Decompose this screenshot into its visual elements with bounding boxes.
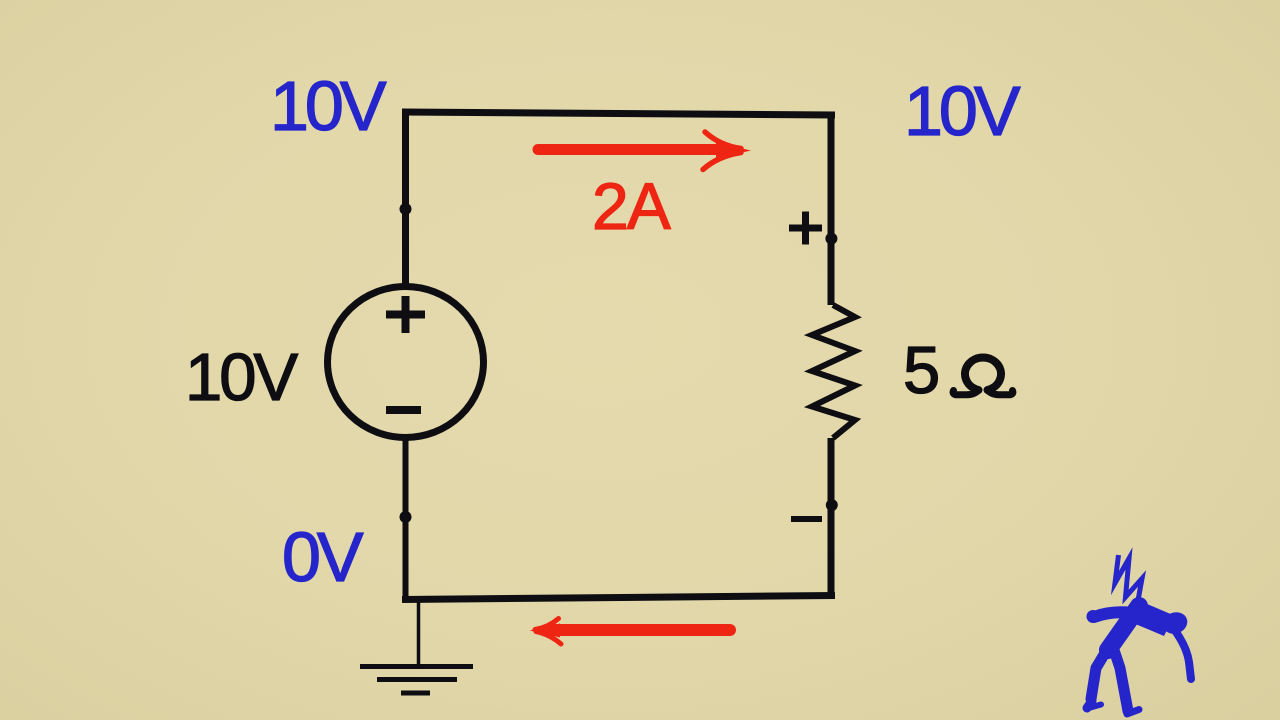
current arrow top (2A, pointing right) xyxy=(538,132,751,170)
resistor minus polarity mark xyxy=(791,516,822,522)
resistor R1 zigzag body xyxy=(812,305,855,438)
resistor plus polarity mark xyxy=(789,212,822,245)
voltage source V1 circle xyxy=(328,287,484,438)
node label 0V (bottom-left, blue) xyxy=(282,522,360,592)
wire top xyxy=(402,112,835,115)
wire bottom xyxy=(402,596,835,600)
junction dot left upper xyxy=(400,203,412,215)
electrocuted person icon: body xyxy=(1087,601,1192,714)
junction dot right upper xyxy=(825,233,837,245)
value label ohm unit (black omega, drawn) xyxy=(948,345,1028,405)
electrocuted person icon: lightning bolt xyxy=(1115,555,1142,606)
node label 10V (top-left, blue) xyxy=(270,71,383,141)
ground symbol xyxy=(360,600,473,693)
value label 5 (resistor value, black) xyxy=(903,337,940,404)
current arrow bottom (return, pointing left) xyxy=(530,619,731,645)
voltage source minus terminal xyxy=(386,406,421,414)
node label 10V (top-right, blue) xyxy=(904,76,1017,146)
wire left upper (node 10V to source +) xyxy=(402,110,409,286)
junction dot left lower xyxy=(400,511,412,523)
wire right lower (resistor to node 0V) xyxy=(828,438,835,599)
wire right upper (node 10V to resistor) xyxy=(828,112,835,305)
value label 2A (current, red) xyxy=(592,173,669,239)
junction dot right lower xyxy=(826,499,838,511)
voltage source plus terminal xyxy=(386,296,425,333)
value label 10V (source value, black) xyxy=(185,344,295,411)
wire left lower (source - to node 0V) xyxy=(403,439,409,601)
